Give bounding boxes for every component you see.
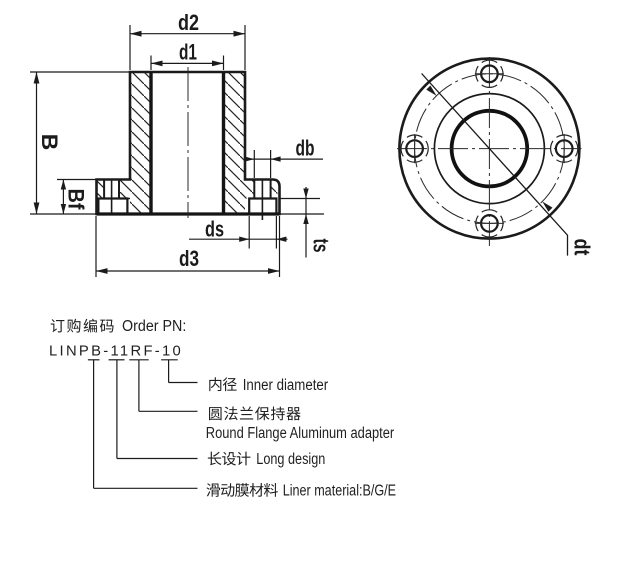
bolt hole left — [406, 140, 423, 157]
bolt hole top — [481, 66, 498, 83]
svg-text:Round Flange Aluminum adapter: Round Flange Aluminum adapter — [206, 425, 394, 442]
left view: bore walls — [149, 72, 152, 214]
svg-text:d2: d2 — [178, 10, 199, 35]
text: label long design (Chinese) — [208, 452, 251, 466]
dimension d1 — [150, 56, 152, 71]
dimension d2 — [129, 25, 131, 70]
hatched section: right flange between body and hole — [245, 180, 254, 199]
PN leader horizontals — [169, 382, 198, 384]
bolt hole bottom centerline — [475, 222, 504, 224]
right view: horizontal centerline — [397, 148, 582, 150]
svg-text:Long design: Long design — [256, 451, 325, 468]
text: label liner material (Chinese) — [206, 483, 277, 497]
hatched section: left flange outboard of hole — [97, 180, 105, 199]
dimension dt (bolt circle diameter) — [422, 74, 568, 256]
bolt hole right centerline — [563, 134, 565, 163]
bolt hole bottom — [481, 215, 498, 232]
left flange bolt hole axis — [111, 180, 113, 215]
svg-text:db: db — [296, 136, 315, 161]
left flange bolt hole (shank) — [103, 180, 105, 199]
dimension ds — [248, 216, 250, 249]
PN leader ticks — [88, 359, 100, 361]
right view: bolt circle (centerline) — [415, 74, 565, 224]
svg-text:Liner material:B/G/E: Liner material:B/G/E — [283, 483, 396, 500]
dimension B — [30, 71, 130, 73]
dimension Bf — [57, 179, 97, 181]
svg-text:Inner diameter: Inner diameter — [243, 377, 329, 394]
left flange counterbore — [98, 199, 127, 215]
bolt hole left centerline — [414, 134, 416, 163]
dimension db — [253, 150, 255, 178]
hatched section: left flange between hole and body — [119, 180, 130, 199]
PN leader verticals — [93, 360, 95, 489]
bore centerline — [187, 67, 189, 218]
right flange bolt hole axis — [261, 180, 263, 221]
svg-text:Bf: Bf — [64, 189, 89, 211]
text: label inner diameter (Chinese) — [209, 377, 236, 391]
svg-text:B: B — [37, 134, 62, 151]
bolt hole right — [556, 140, 573, 157]
right view: outer flange circle — [399, 59, 579, 239]
dimension d3 — [95, 216, 97, 277]
svg-text:d1: d1 — [179, 40, 197, 65]
left view: part outline — [97, 72, 280, 214]
svg-text:ts: ts — [309, 239, 334, 253]
right view: vertical centerline — [488, 57, 490, 246]
svg-text:dt: dt — [570, 239, 595, 257]
right flange bolt hole (shank) — [253, 180, 255, 199]
svg-text:Order PN:: Order PN: — [122, 318, 186, 335]
svg-text:ds: ds — [205, 216, 224, 241]
svg-text:d3: d3 — [179, 246, 199, 271]
right view: body diameter circle — [434, 94, 544, 204]
dimension ts — [281, 198, 321, 200]
right view: bore circle — [452, 111, 528, 187]
hatched section: right body wall — [224, 72, 246, 214]
bolt hole top centerline — [475, 73, 504, 75]
bolt hole top counterbore circle — [476, 60, 503, 87]
bottom extension line — [30, 213, 97, 215]
counterbore top line continuation into hatch (left) — [127, 198, 130, 200]
part bottom edge (thick) — [97, 212, 280, 215]
hatched section: left body wall — [130, 72, 151, 214]
bolt hole right counterbore circle — [551, 135, 578, 162]
right flange counterbore — [249, 199, 276, 215]
text: ordering code heading (Chinese) — [51, 319, 114, 333]
bolt hole bottom counterbore circle — [476, 210, 503, 237]
text: label round flange retainer (Chinese) — [209, 407, 301, 421]
bolt hole left counterbore circle — [401, 135, 428, 162]
svg-text:LINPB-11RF-10: LINPB-11RF-10 — [49, 344, 183, 360]
hatched section: right flange outboard of hole — [271, 180, 278, 199]
